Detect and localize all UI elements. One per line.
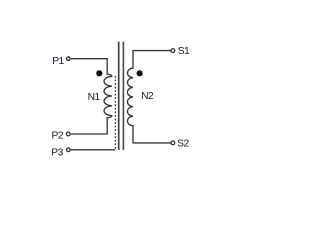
svg-text:N1: N1 <box>88 92 101 103</box>
svg-text:P2: P2 <box>51 131 63 142</box>
svg-text:S1: S1 <box>178 46 190 57</box>
svg-text:P1: P1 <box>52 56 64 67</box>
svg-text:N2: N2 <box>141 91 154 102</box>
svg-text:P3: P3 <box>51 148 63 159</box>
svg-text:S2: S2 <box>177 138 189 149</box>
